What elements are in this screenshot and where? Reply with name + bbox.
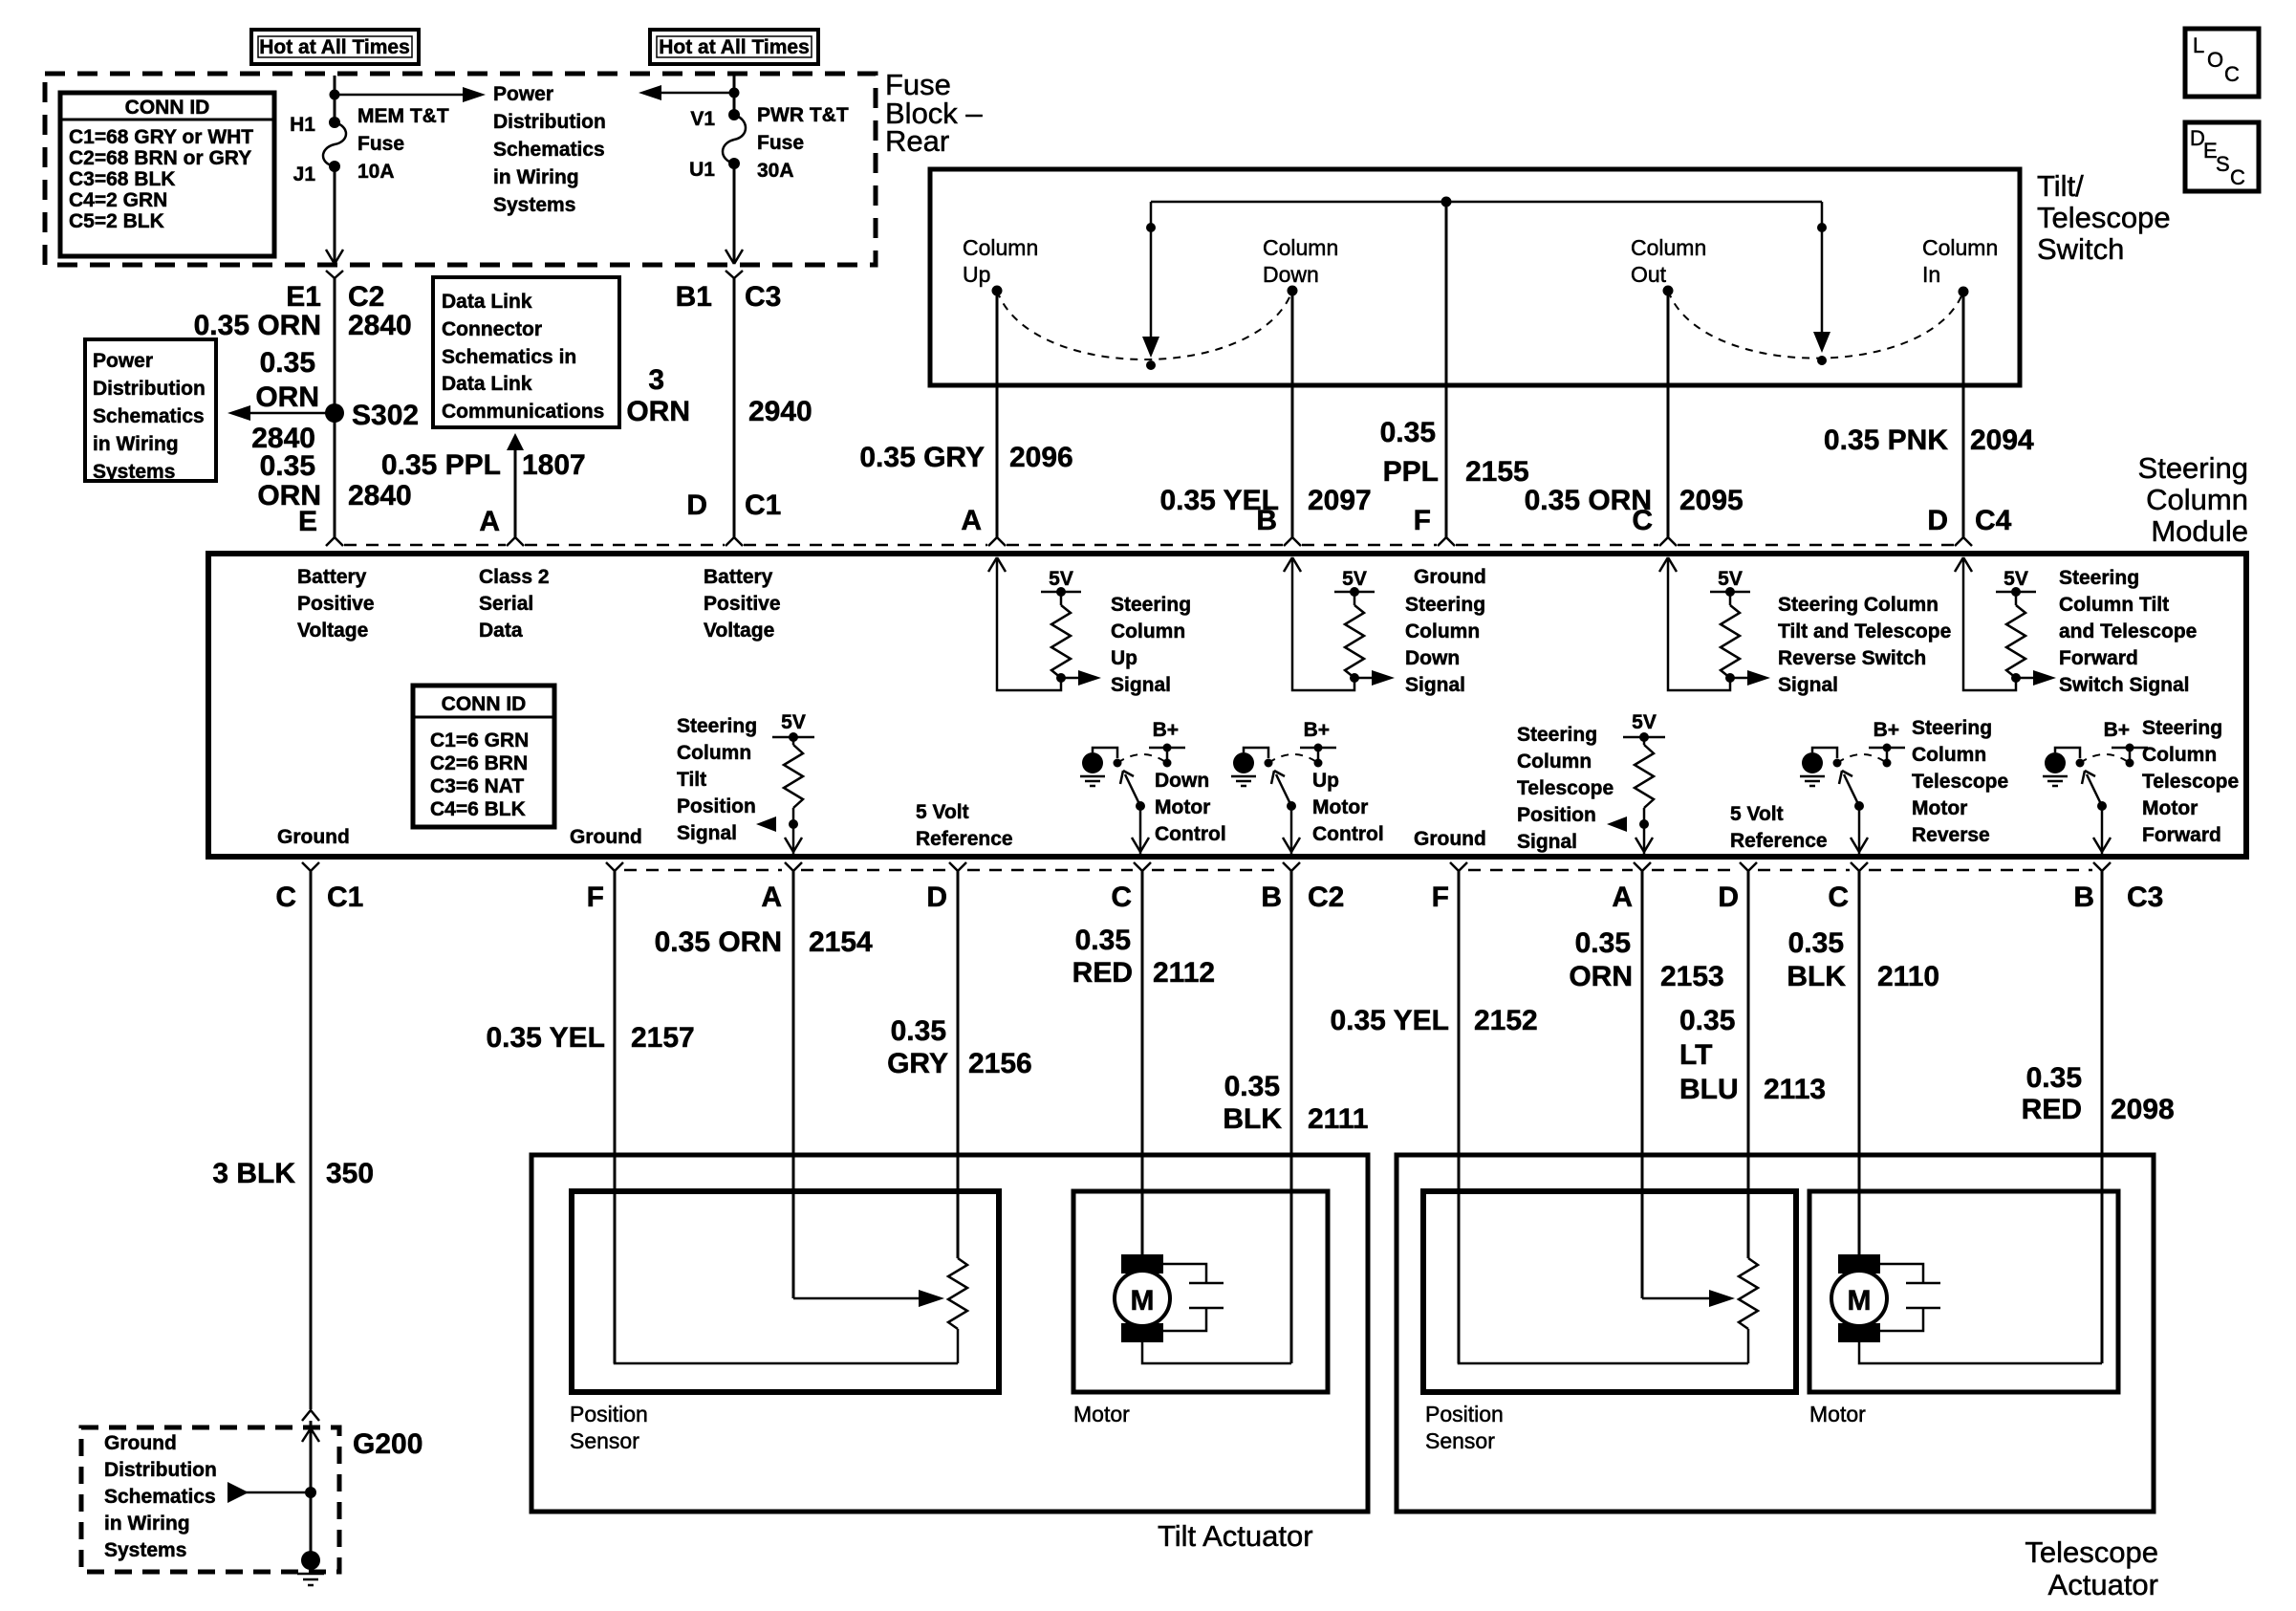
svg-text:2111: 2111 bbox=[1308, 1103, 1368, 1135]
label Steering Column Telescope Motor Reverse bbox=[1912, 717, 2008, 846]
svg-text:Steering Column: Steering Column bbox=[1778, 594, 1939, 616]
svg-text:Steering: Steering bbox=[2142, 717, 2222, 739]
pin C label bbox=[1632, 505, 1653, 536]
svg-text:B1: B1 bbox=[676, 281, 712, 313]
svg-text:350: 350 bbox=[326, 1158, 374, 1189]
svg-text:5V: 5V bbox=[781, 711, 806, 733]
wire label 0.35 PNK 2094 bbox=[1824, 425, 2034, 456]
label Steering Column Down Signal bbox=[1405, 594, 1485, 696]
label Tilt Actuator bbox=[1158, 1519, 1313, 1553]
wire arrow from S302 to power distribution box bbox=[227, 405, 335, 421]
pin D (battery) bbox=[686, 490, 707, 521]
wire label 0.35 ORN 2154 bbox=[655, 926, 873, 958]
svg-text:Sensor: Sensor bbox=[570, 1428, 639, 1453]
svg-text:C1: C1 bbox=[745, 490, 781, 521]
wire 2840 ORN (E1 to module E) bbox=[334, 278, 336, 537]
connector fork C2 pin E1 (below fuse block) bbox=[326, 271, 343, 278]
pin F label (telescope) bbox=[1432, 882, 1449, 913]
5V label (tilt position) bbox=[781, 711, 806, 733]
svg-text:5 Volt: 5 Volt bbox=[1730, 803, 1784, 825]
wire label 0.35 GRY 2156 bbox=[887, 1015, 1032, 1079]
label Tilt/Telescope Switch bbox=[2037, 169, 2171, 266]
svg-text:2096: 2096 bbox=[1009, 442, 1073, 473]
svg-text:Signal: Signal bbox=[677, 822, 737, 844]
label Position Sensor (telescope) bbox=[1425, 1402, 1504, 1453]
svg-text:ORN: ORN bbox=[1569, 961, 1633, 992]
pin D label (telescope) bbox=[1718, 882, 1739, 913]
svg-text:A: A bbox=[761, 882, 782, 913]
svg-text:Systems: Systems bbox=[93, 461, 175, 483]
svg-text:C2: C2 bbox=[348, 281, 384, 313]
resistor column up signal bbox=[1041, 587, 1081, 683]
fork at ground distribution crossing bbox=[302, 1410, 319, 1421]
capacitor across telescope motor bbox=[1880, 1264, 1940, 1331]
capacitor across tilt motor bbox=[1163, 1264, 1224, 1331]
wire 2157 YEL (pin F to tilt sensor) bbox=[614, 871, 617, 1363]
wire from top edge into PWR fuse bbox=[733, 76, 736, 115]
pin E1 bbox=[286, 281, 321, 313]
svg-text:3: 3 bbox=[648, 364, 664, 396]
ground G200 bbox=[297, 1428, 422, 1585]
svg-text:Position: Position bbox=[677, 795, 756, 817]
motor M1 (tilt) bbox=[1115, 1254, 1170, 1342]
svg-text:Up: Up bbox=[963, 262, 990, 287]
pin F label bbox=[1414, 505, 1431, 536]
telescope switch travel dot bbox=[1817, 356, 1827, 365]
wire label 3 ORN 2940 bbox=[626, 364, 812, 427]
telescope switch actuator drop wire bbox=[1813, 202, 1830, 353]
switch common bus wire bbox=[1151, 201, 1822, 204]
svg-text:Tilt/: Tilt/ bbox=[2037, 169, 2084, 203]
svg-text:Column: Column bbox=[963, 235, 1038, 260]
svg-text:Steering: Steering bbox=[1912, 717, 1992, 739]
pin C3 label bbox=[745, 281, 781, 313]
box Power Distribution Schematics in Wiring Systems bbox=[85, 339, 216, 483]
svg-text:Switch: Switch bbox=[2037, 232, 2124, 266]
junction switch bus to pin F bbox=[1441, 197, 1452, 207]
svg-text:Tilt Actuator: Tilt Actuator bbox=[1158, 1519, 1313, 1553]
resistor column down signal bbox=[1334, 587, 1375, 683]
connector dashed line (top row) bbox=[344, 544, 1954, 547]
telescope motor box bbox=[1809, 1191, 2118, 1392]
label Hot at All Times (right) bbox=[650, 30, 818, 64]
label 5 Volt Reference (telescope) bbox=[1730, 803, 1828, 852]
svg-text:PWR T&T: PWR T&T bbox=[757, 104, 849, 126]
wire label 0.35 RED 2112 bbox=[1072, 925, 1215, 989]
svg-text:2156: 2156 bbox=[968, 1048, 1032, 1079]
svg-text:Signal: Signal bbox=[1405, 674, 1465, 696]
fork module pin C (column out) bbox=[1659, 537, 1677, 546]
svg-text:Reverse Switch: Reverse Switch bbox=[1778, 647, 1926, 669]
fork module pin D bbox=[726, 537, 743, 546]
pin B label (telescope) bbox=[2073, 882, 2094, 913]
svg-text:RED: RED bbox=[2022, 1094, 2082, 1125]
svg-text:Motor: Motor bbox=[1073, 1402, 1130, 1426]
svg-text:Signal: Signal bbox=[1517, 831, 1577, 853]
tilt motor return wire bbox=[1142, 1342, 1291, 1363]
svg-text:C3=6 NAT: C3=6 NAT bbox=[430, 775, 524, 797]
svg-text:C: C bbox=[1111, 882, 1132, 913]
svg-text:C4=2 GRN: C4=2 GRN bbox=[69, 189, 167, 211]
wire label 0.35 YEL 2152 bbox=[1330, 1005, 1537, 1036]
5V label (forward switch) bbox=[2004, 568, 2028, 590]
wire label 0.35 PPL 1807 bbox=[381, 449, 586, 481]
5V label (up signal) bbox=[1049, 568, 1073, 590]
svg-text:C: C bbox=[275, 882, 296, 913]
pin A (class 2) bbox=[479, 506, 500, 537]
svg-text:H1: H1 bbox=[290, 114, 315, 136]
wire label 0.35 BLK 2111 bbox=[1223, 1071, 1368, 1135]
svg-text:E: E bbox=[298, 506, 317, 537]
svg-text:Data Link: Data Link bbox=[442, 291, 532, 313]
svg-text:G200: G200 bbox=[353, 1428, 422, 1460]
pin D label (tilt) bbox=[926, 882, 947, 913]
svg-text:Position: Position bbox=[1517, 804, 1596, 826]
tilt switch dashed travel arc bbox=[997, 291, 1292, 359]
svg-text:Systems: Systems bbox=[493, 194, 575, 216]
svg-text:Signal: Signal bbox=[1111, 674, 1171, 696]
svg-text:2940: 2940 bbox=[748, 396, 812, 427]
svg-text:F: F bbox=[1414, 505, 1431, 536]
label Telescope Actuator bbox=[2025, 1535, 2158, 1601]
svg-text:Data: Data bbox=[479, 620, 523, 642]
svg-text:2840: 2840 bbox=[348, 480, 412, 512]
svg-text:Positive: Positive bbox=[297, 593, 375, 615]
wire 2152 YEL (pin F to tele sensor) bbox=[1458, 871, 1461, 1363]
wire 2098 RED (pin B to tele motor) bbox=[2101, 871, 2104, 1363]
signal arrow (down signal) bbox=[1354, 670, 1395, 686]
svg-text:J1: J1 bbox=[293, 163, 316, 185]
label Position Sensor (tilt) bbox=[570, 1402, 648, 1453]
wire 2154 ORN (pin A to tilt wiper) bbox=[792, 871, 795, 1298]
pin F label (tilt) bbox=[587, 882, 604, 913]
label Steering Column Tilt and Telescope Reverse Switch Signal bbox=[1778, 594, 1951, 696]
svg-text:Data Link: Data Link bbox=[442, 373, 532, 395]
svg-text:A: A bbox=[961, 505, 982, 536]
label MEM T&T Fuse 10A bbox=[357, 105, 449, 183]
svg-text:CONN ID: CONN ID bbox=[125, 97, 210, 119]
fork module pin F (switch ground) bbox=[1438, 537, 1455, 546]
svg-text:0.35: 0.35 bbox=[2026, 1062, 2082, 1094]
svg-text:Signal: Signal bbox=[1778, 674, 1838, 696]
svg-text:Schematics in: Schematics in bbox=[442, 346, 576, 368]
tilt wiper arrow bbox=[793, 1290, 944, 1307]
pin U1 bbox=[689, 159, 715, 181]
contact Column Up bbox=[963, 235, 1038, 296]
LOC reference box bbox=[2185, 29, 2259, 97]
svg-text:0.35 YEL: 0.35 YEL bbox=[1330, 1005, 1449, 1036]
label 5 Volt Reference (tilt) bbox=[916, 801, 1013, 850]
svg-text:2110: 2110 bbox=[1877, 961, 1939, 992]
pin C2 label bbox=[348, 281, 384, 313]
svg-text:Hot at All Times: Hot at All Times bbox=[659, 36, 810, 58]
svg-text:U1: U1 bbox=[689, 159, 715, 181]
svg-text:Down: Down bbox=[1155, 770, 1209, 792]
svg-text:D: D bbox=[686, 490, 707, 521]
svg-text:in Wiring: in Wiring bbox=[93, 433, 179, 455]
svg-text:Position: Position bbox=[570, 1402, 648, 1426]
svg-text:B: B bbox=[1256, 505, 1277, 536]
pin D label bbox=[1927, 505, 1948, 536]
CONN ID table (fuse block) bbox=[60, 93, 274, 256]
svg-text:ORN: ORN bbox=[255, 381, 319, 413]
svg-text:10A: 10A bbox=[357, 161, 395, 183]
svg-text:Column: Column bbox=[1263, 235, 1338, 260]
fork module pin B bottom (up motor) bbox=[1283, 862, 1300, 871]
svg-text:Ground: Ground bbox=[1414, 566, 1486, 588]
B+ feed (reverse motor) bbox=[1869, 719, 1905, 768]
pin C2 label (bottom) bbox=[1308, 882, 1344, 913]
svg-text:Motor: Motor bbox=[1912, 797, 1967, 819]
wire label 0.35 RED 2098 bbox=[2022, 1062, 2175, 1125]
wire arrow to Power Distribution (left) bbox=[639, 85, 734, 100]
telescope wiper arrow bbox=[1642, 1290, 1735, 1307]
svg-text:Module: Module bbox=[2151, 514, 2248, 548]
pin C label (telescope) bbox=[1828, 882, 1849, 913]
svg-text:Out: Out bbox=[1631, 262, 1667, 287]
signal arrow (reverse switch) bbox=[1730, 670, 1770, 686]
svg-text:Reference: Reference bbox=[1730, 830, 1828, 852]
wire 2110 BLK (pin C to tele motor) bbox=[1858, 871, 1861, 1254]
svg-text:0.35 YEL: 0.35 YEL bbox=[486, 1022, 605, 1054]
pin A label (top switch row) bbox=[961, 505, 982, 536]
fork module pin D bottom (tilt 5V ref) bbox=[949, 862, 966, 871]
wire 2095 ORN (Column Out to module C) bbox=[1667, 291, 1670, 537]
svg-text:5V: 5V bbox=[1342, 568, 1367, 590]
potentiometer tilt bbox=[948, 1258, 967, 1363]
svg-text:Connector: Connector bbox=[442, 318, 542, 340]
svg-text:Telescope: Telescope bbox=[1912, 771, 2008, 793]
svg-text:E1: E1 bbox=[286, 281, 321, 313]
steering column module outline bbox=[208, 554, 2246, 857]
wire arrow to Power Distribution (right) bbox=[335, 87, 486, 102]
svg-text:Tilt: Tilt bbox=[677, 769, 706, 791]
svg-text:in Wiring: in Wiring bbox=[493, 166, 579, 188]
wire into ground distribution box with up arrow bbox=[302, 1421, 319, 1560]
label Fuse Block - Rear bbox=[885, 68, 983, 158]
svg-text:Forward: Forward bbox=[2142, 824, 2221, 846]
svg-text:M: M bbox=[1848, 1285, 1872, 1317]
svg-text:Systems: Systems bbox=[104, 1539, 186, 1561]
svg-text:MEM T&T: MEM T&T bbox=[357, 105, 449, 127]
svg-text:Battery: Battery bbox=[297, 566, 367, 588]
svg-text:Column: Column bbox=[1405, 620, 1480, 642]
svg-text:Forward: Forward bbox=[2059, 647, 2138, 669]
contact Column In bbox=[1922, 235, 1998, 297]
svg-text:S302: S302 bbox=[352, 400, 419, 431]
svg-text:C3=68 BLK: C3=68 BLK bbox=[69, 168, 175, 190]
pin C1 label bbox=[745, 490, 781, 521]
svg-text:B: B bbox=[1261, 882, 1282, 913]
label Power Distribution Schematics in Wiring Systems (fuse block) bbox=[493, 83, 606, 216]
label Motor (tilt) bbox=[1073, 1402, 1130, 1426]
svg-text:in Wiring: in Wiring bbox=[104, 1513, 190, 1535]
wire label 0.35 GRY 2096 bbox=[859, 442, 1072, 473]
svg-text:Motor: Motor bbox=[1155, 796, 1210, 818]
fuse block dashed outline bbox=[45, 74, 876, 265]
svg-text:C1=6 GRN: C1=6 GRN bbox=[430, 729, 529, 751]
svg-text:Steering: Steering bbox=[1405, 594, 1485, 616]
signal direction arrow (telescope position) bbox=[1607, 816, 1627, 832]
svg-text:5 Volt: 5 Volt bbox=[916, 801, 969, 823]
label Down Motor Control bbox=[1155, 770, 1226, 845]
svg-text:Column: Column bbox=[1912, 744, 1986, 766]
svg-text:Power: Power bbox=[493, 83, 553, 105]
wire label 0.35 BLK 2110 bbox=[1787, 927, 1939, 992]
switch telescope motor reverse bbox=[1812, 748, 1887, 811]
svg-text:C4: C4 bbox=[1975, 505, 2012, 536]
tilt position sensor box bbox=[572, 1191, 999, 1392]
svg-text:Fuse: Fuse bbox=[357, 133, 404, 155]
svg-text:F: F bbox=[587, 882, 604, 913]
label Ground (pin F function) bbox=[1414, 566, 1486, 588]
wire label 0.35 ORN 2153 bbox=[1569, 927, 1723, 992]
label Ground (pin C bottom left) bbox=[277, 826, 350, 848]
signal direction arrow (tilt position) bbox=[756, 816, 776, 832]
svg-text:In: In bbox=[1922, 262, 1940, 287]
svg-text:Fuse: Fuse bbox=[757, 132, 804, 154]
pin C3 label (bottom) bbox=[2127, 882, 2163, 913]
svg-text:Steering: Steering bbox=[2138, 451, 2248, 485]
svg-text:0.35 ORN: 0.35 ORN bbox=[194, 310, 321, 341]
svg-text:RED: RED bbox=[1072, 957, 1133, 989]
svg-text:0.35: 0.35 bbox=[260, 347, 315, 379]
wire 350 BLK (module C to G200) bbox=[310, 871, 313, 1409]
resistor tilt position signal pull-up bbox=[772, 732, 814, 854]
svg-text:2154: 2154 bbox=[809, 926, 873, 958]
svg-text:A: A bbox=[479, 506, 500, 537]
B+ feed (down motor) bbox=[1149, 719, 1185, 768]
telescope switch dashed travel arc bbox=[1668, 291, 1963, 359]
5V label (down signal) bbox=[1342, 568, 1367, 590]
svg-text:Motor: Motor bbox=[1312, 796, 1368, 818]
fork module pin F bottom (tilt sensor gnd) bbox=[606, 862, 623, 871]
ground symbol (up motor control) bbox=[1231, 752, 1256, 786]
svg-text:C2=6 BRN: C2=6 BRN bbox=[430, 752, 528, 774]
svg-text:Down: Down bbox=[1263, 262, 1319, 287]
fuse MEM T&T 10A bbox=[323, 117, 346, 172]
svg-text:C1=68 GRY or WHT: C1=68 GRY or WHT bbox=[69, 126, 253, 148]
pin C label (tilt) bbox=[1111, 882, 1132, 913]
wire PWR fuse down to fuse block edge bbox=[726, 163, 743, 264]
svg-text:Voltage: Voltage bbox=[704, 620, 774, 642]
tilt motor box bbox=[1073, 1191, 1328, 1392]
svg-text:V1: V1 bbox=[690, 108, 715, 130]
pin A label (telescope) bbox=[1612, 882, 1633, 913]
splice arrow to ground distribution bbox=[227, 1482, 316, 1503]
wire label 0.35 YEL 2157 bbox=[486, 1022, 694, 1054]
svg-text:D: D bbox=[1718, 882, 1739, 913]
resistor reverse switch signal bbox=[1710, 587, 1750, 683]
svg-text:Distribution: Distribution bbox=[93, 378, 206, 400]
wire label 0.35 YEL 2097 bbox=[1159, 485, 1371, 516]
pin B1 bbox=[676, 281, 712, 313]
svg-text:M: M bbox=[1131, 1285, 1155, 1317]
svg-text:2113: 2113 bbox=[1764, 1074, 1826, 1105]
label Motor (telescope) bbox=[1809, 1402, 1866, 1426]
svg-text:Column: Column bbox=[1517, 751, 1592, 773]
fork module pin D (column in) bbox=[1955, 537, 1972, 546]
5V label (telescope position) bbox=[1632, 711, 1657, 733]
svg-text:C2: C2 bbox=[1308, 882, 1344, 913]
wire 2113 LT BLU (pin D to tele pot) bbox=[1747, 871, 1750, 1258]
svg-text:Actuator: Actuator bbox=[2048, 1568, 2158, 1601]
svg-text:0.35: 0.35 bbox=[1075, 925, 1131, 956]
resistor telescope position signal pull-up bbox=[1623, 732, 1665, 854]
wire 1807 PPL with up arrow bbox=[507, 433, 524, 537]
label Ground (pin F bottom) bbox=[570, 826, 642, 848]
box Ground Distribution Schematics in Wiring Systems bbox=[81, 1427, 339, 1572]
svg-text:Schematics: Schematics bbox=[93, 405, 205, 427]
svg-text:L: L bbox=[2193, 33, 2204, 57]
svg-text:0.35: 0.35 bbox=[1788, 927, 1844, 959]
svg-text:Up: Up bbox=[1111, 647, 1137, 669]
wire forward motor to pin B bbox=[2093, 806, 2111, 854]
fork module pin A bottom (tele position) bbox=[1634, 862, 1651, 871]
wire label 0.35 ORN (above S302 arrow) bbox=[255, 347, 319, 413]
wire label 0.35 ORN 2095 bbox=[1525, 485, 1744, 516]
tilt switch actuator drop wire bbox=[1142, 202, 1159, 358]
ground symbol (forward motor) bbox=[2043, 752, 2068, 786]
svg-text:B+: B+ bbox=[1874, 719, 1899, 741]
pin A label (tilt) bbox=[761, 882, 782, 913]
ground symbol (down motor control) bbox=[1080, 752, 1105, 786]
svg-text:0.35: 0.35 bbox=[1224, 1071, 1280, 1102]
B+ feed (up motor) bbox=[1300, 719, 1336, 768]
label Hot at All Times (left) bbox=[251, 30, 419, 64]
pin V1 bbox=[690, 108, 715, 130]
svg-text:0.35 PPL: 0.35 PPL bbox=[381, 449, 501, 481]
pin C label (bottom) bbox=[275, 882, 296, 913]
label Steering Column Tilt Position Signal bbox=[677, 715, 757, 844]
svg-text:Schematics: Schematics bbox=[493, 139, 605, 161]
DESC reference box bbox=[2185, 122, 2259, 191]
svg-text:Column: Column bbox=[2142, 744, 2217, 766]
svg-text:Telescope: Telescope bbox=[2142, 771, 2239, 793]
contact Column Down bbox=[1263, 235, 1338, 296]
connector fork C3 pin B1 bbox=[726, 271, 743, 278]
svg-text:5V: 5V bbox=[2004, 568, 2028, 590]
wire label 2840 0.35 ORN 2840 (below S302) bbox=[251, 423, 412, 512]
pin C input wire with up arrow bbox=[1659, 557, 1730, 690]
pin B label (tilt) bbox=[1261, 882, 1282, 913]
svg-text:F: F bbox=[1432, 882, 1449, 913]
svg-text:Serial: Serial bbox=[479, 593, 533, 615]
svg-text:Control: Control bbox=[1312, 823, 1384, 845]
svg-text:1807: 1807 bbox=[522, 449, 586, 481]
wire 2155 PPL (switch common to module F) bbox=[1445, 202, 1448, 537]
svg-text:D: D bbox=[926, 882, 947, 913]
wire down motor control to pin C bbox=[1132, 806, 1149, 854]
svg-text:2098: 2098 bbox=[2111, 1094, 2175, 1125]
svg-text:Motor: Motor bbox=[1809, 1402, 1866, 1426]
svg-text:0.35: 0.35 bbox=[891, 1015, 946, 1047]
svg-text:0.35: 0.35 bbox=[1575, 927, 1631, 959]
wire 2111 BLK (pin B to tilt motor) bbox=[1290, 871, 1293, 1363]
label Up Motor Control bbox=[1312, 770, 1384, 845]
wire label 0.35 LT BLU 2113 bbox=[1679, 1005, 1826, 1105]
signal arrow (forward switch) bbox=[2016, 670, 2056, 686]
fork module pin C bottom (down motor) bbox=[1134, 862, 1151, 871]
motor M2 (telescope) bbox=[1831, 1254, 1887, 1342]
svg-text:Steering: Steering bbox=[677, 715, 757, 737]
pin C1 label (bottom) bbox=[327, 882, 363, 913]
wire label 0.35 PPL 2155 bbox=[1380, 417, 1529, 488]
svg-text:C3: C3 bbox=[745, 281, 781, 313]
connector dashed line (bottom row) bbox=[624, 869, 2092, 872]
svg-text:Down: Down bbox=[1405, 647, 1460, 669]
label Class 2 Serial Data (pin A) bbox=[479, 566, 550, 642]
